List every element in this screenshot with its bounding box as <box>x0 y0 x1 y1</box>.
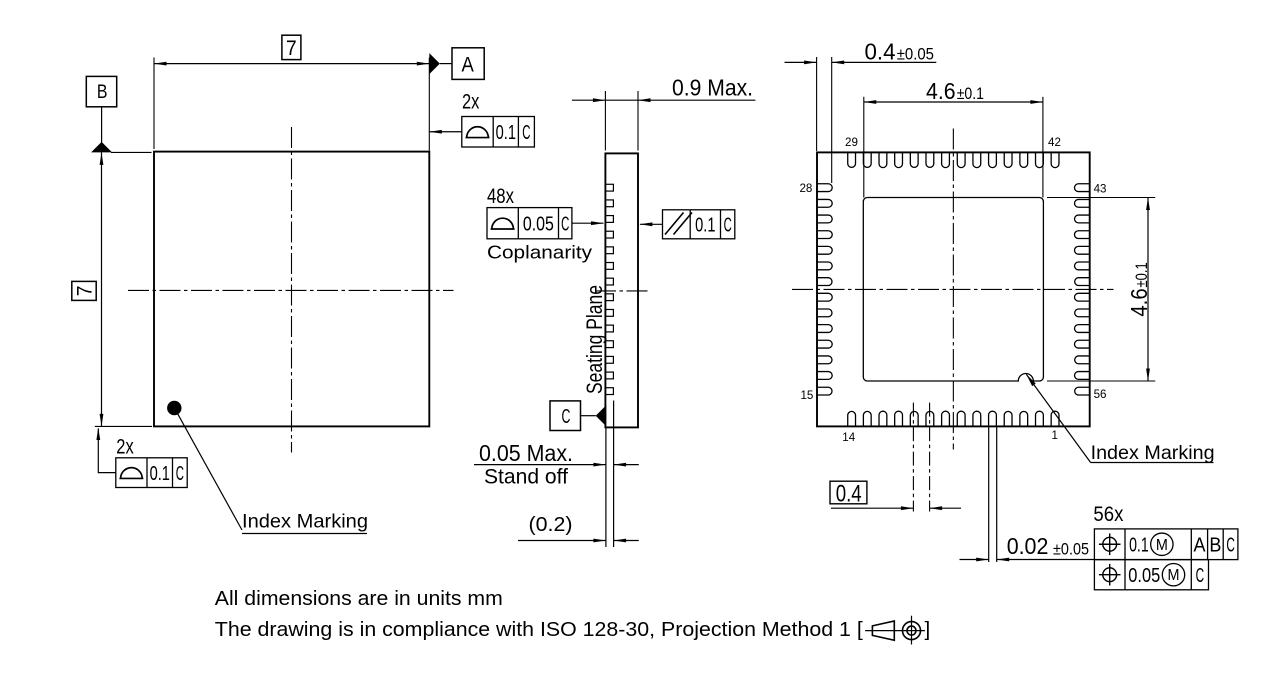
svg-text:C: C <box>522 121 530 144</box>
svg-text:0.4: 0.4 <box>836 481 862 508</box>
svg-text:C: C <box>1226 534 1235 557</box>
svg-text:All dimensions are in units mm: All dimensions are in units mm <box>215 587 503 610</box>
svg-text:56x: 56x <box>1093 502 1123 526</box>
svg-text:C: C <box>1196 564 1205 587</box>
svg-text:]: ] <box>925 618 931 641</box>
svg-text:C: C <box>562 405 571 428</box>
svg-text:15: 15 <box>800 389 813 402</box>
svg-text:Index Marking: Index Marking <box>1091 442 1215 464</box>
svg-text:0.05: 0.05 <box>523 213 554 236</box>
svg-text:0.9 Max.: 0.9 Max. <box>672 75 753 101</box>
svg-text:0.1: 0.1 <box>150 462 170 485</box>
svg-text:42: 42 <box>1048 136 1061 149</box>
svg-text:0.1: 0.1 <box>1129 534 1149 557</box>
svg-text:±0.05: ±0.05 <box>897 44 934 63</box>
svg-text:0.1: 0.1 <box>496 121 516 144</box>
svg-text:2x: 2x <box>462 91 480 114</box>
svg-text:Stand off: Stand off <box>484 465 568 489</box>
svg-text:28: 28 <box>799 182 812 195</box>
svg-text:0.05 Max.: 0.05 Max. <box>479 440 573 466</box>
svg-text:B: B <box>97 81 108 103</box>
svg-text:Index Marking: Index Marking <box>242 511 368 533</box>
svg-text:0.1: 0.1 <box>695 214 715 237</box>
svg-text:C: C <box>724 214 732 237</box>
svg-text:A: A <box>1194 534 1206 557</box>
svg-text:±0.1: ±0.1 <box>957 84 984 103</box>
svg-text:48x: 48x <box>487 184 514 208</box>
svg-text:M: M <box>1168 567 1180 584</box>
svg-text:Seating Plane: Seating Plane <box>582 285 607 394</box>
svg-text:43: 43 <box>1094 182 1107 195</box>
svg-text:C: C <box>176 462 184 485</box>
svg-text:0.02: 0.02 <box>1007 533 1049 559</box>
svg-text:M: M <box>1156 537 1168 554</box>
svg-text:29: 29 <box>845 136 858 149</box>
svg-text:0.05: 0.05 <box>1128 564 1160 587</box>
svg-text:56: 56 <box>1094 388 1107 401</box>
svg-text:0.4: 0.4 <box>865 39 896 65</box>
svg-text:Coplanarity: Coplanarity <box>487 242 593 263</box>
svg-text:7: 7 <box>286 36 297 60</box>
svg-text:7: 7 <box>73 286 97 297</box>
svg-text:C: C <box>561 213 569 236</box>
svg-text:±0.1: ±0.1 <box>1132 262 1151 287</box>
svg-text:2x: 2x <box>116 436 134 459</box>
svg-text:14: 14 <box>842 431 855 444</box>
svg-text:1: 1 <box>1052 429 1058 442</box>
svg-text:4.6: 4.6 <box>1126 288 1152 316</box>
svg-text:±0.05: ±0.05 <box>1053 539 1089 558</box>
svg-text:The drawing is in compliance w: The drawing is in compliance with ISO 12… <box>215 618 863 641</box>
svg-text:B: B <box>1209 534 1221 557</box>
svg-text:4.6: 4.6 <box>926 78 956 104</box>
svg-text:A: A <box>462 53 474 76</box>
svg-text:(0.2): (0.2) <box>529 514 573 536</box>
